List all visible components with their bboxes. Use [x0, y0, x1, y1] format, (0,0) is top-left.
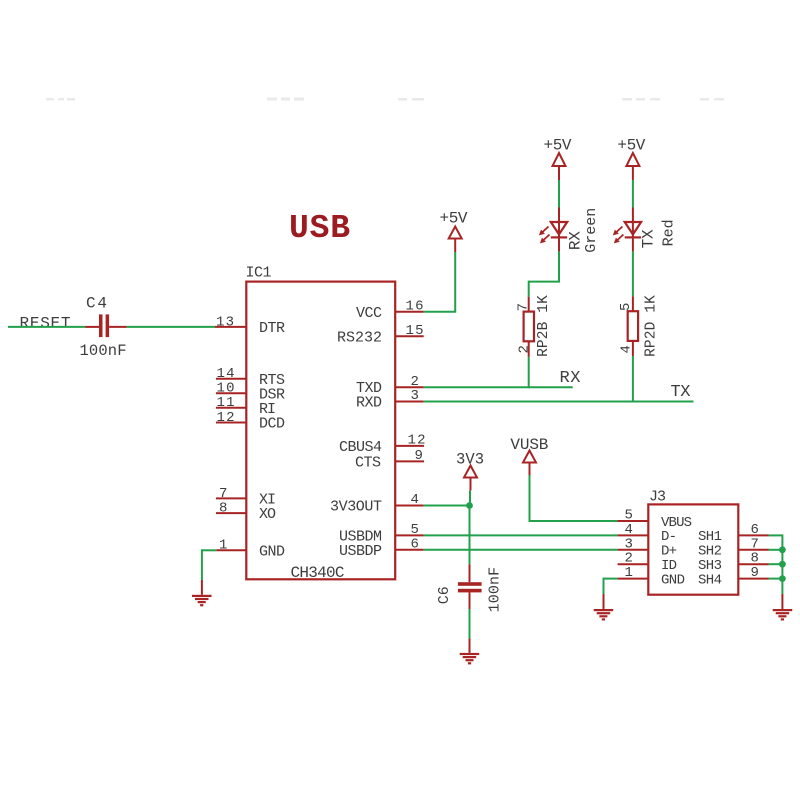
svg-text:11: 11 — [217, 395, 235, 411]
svg-text:Red: Red — [661, 219, 678, 246]
LED TX (red) — [625, 208, 641, 252]
wire RP2D to RXD net — [632, 356, 634, 403]
svg-text:DCD: DCD — [259, 416, 285, 433]
svg-text:VCC: VCC — [356, 305, 382, 322]
ground symbol (C6) — [460, 639, 480, 665]
svg-text:TX: TX — [671, 383, 691, 402]
IC1 pin 14 stub — [216, 378, 246, 380]
svg-text:3V3OUT: 3V3OUT — [330, 499, 382, 516]
wire pin 4 to junction — [424, 505, 470, 507]
power symbol +5V (TX LED) — [617, 137, 645, 181]
IC1 pin 7 stub — [216, 497, 246, 499]
svg-text:RX: RX — [560, 369, 581, 388]
wire USBDP net (pin 6 to J3 pin 3) — [424, 549, 618, 551]
capacitor C6 — [458, 564, 482, 609]
wire C6 to ground — [469, 609, 471, 639]
IC1 pin 5 stub — [395, 534, 424, 536]
IC1 pin 6 stub — [395, 549, 424, 551]
svg-text:100nF: 100nF — [80, 342, 127, 360]
wire +5V to LED RX — [558, 180, 560, 208]
wire +5V to pin 16 horizontal — [424, 311, 457, 313]
wire RXD net (TX) — [424, 401, 694, 403]
LED RX (green) — [551, 208, 567, 252]
svg-text:7: 7 — [516, 303, 532, 311]
IC1 pin 12 stub — [216, 422, 246, 424]
svg-text:C4: C4 — [86, 295, 107, 313]
svg-text:13: 13 — [216, 315, 234, 331]
IC1 pin 8 stub — [216, 512, 246, 514]
wire +5V to LED TX — [632, 180, 634, 208]
J3 pin 3 stub — [618, 549, 649, 551]
J3 pin 9 stub — [738, 578, 768, 580]
IC1 box — [246, 282, 395, 580]
wire VUSB to J3 pin 5 — [529, 520, 618, 522]
svg-text:RESET: RESET — [20, 315, 71, 333]
svg-text:RS232: RS232 — [337, 329, 382, 346]
J3 pin 6 stub — [738, 534, 768, 536]
IC1 pin 13 stub — [215, 326, 246, 328]
svg-text:RP2D 1K: RP2D 1K — [643, 295, 659, 357]
wire RESET net left segment — [8, 326, 85, 328]
svg-text:GND: GND — [661, 572, 685, 588]
svg-text:CTS: CTS — [355, 454, 381, 471]
svg-text:9: 9 — [751, 565, 759, 581]
svg-text:+5V: +5V — [440, 209, 468, 227]
svg-text:SH4: SH4 — [698, 572, 722, 588]
junction node 3V3 — [466, 502, 473, 509]
junction node SH3 — [779, 561, 786, 568]
svg-text:16: 16 — [406, 299, 424, 315]
IC1 pin 3 stub — [395, 401, 424, 403]
IC1 pin 11 stub — [216, 407, 246, 409]
svg-text:4: 4 — [618, 345, 634, 353]
connector J3 box — [648, 504, 738, 594]
svg-text:J3: J3 — [649, 489, 666, 506]
power symbol +5V (VCC net) — [440, 209, 468, 252]
J3 pin 8 stub — [738, 563, 768, 565]
wire IC1 GND to ground — [202, 549, 216, 580]
svg-text:7: 7 — [219, 486, 227, 502]
LED TX emission arrows — [613, 227, 624, 244]
svg-text:1: 1 — [219, 538, 227, 554]
svg-text:3: 3 — [411, 388, 419, 404]
J3 pin 1 stub — [618, 578, 649, 580]
wire J3 GND pin to ground — [604, 578, 618, 594]
svg-text:GND: GND — [259, 543, 285, 560]
ground symbol (J3 GND) — [594, 594, 614, 621]
svg-text:1: 1 — [625, 565, 633, 581]
ground symbol (J3 shield) — [773, 594, 793, 621]
svg-text:IC1: IC1 — [246, 265, 272, 282]
wire VUSB vertical — [529, 475, 531, 521]
svg-text:15: 15 — [406, 323, 424, 339]
resistor RP2B — [524, 297, 534, 357]
svg-text:CBUS4: CBUS4 — [339, 439, 382, 456]
IC1 pin 12 right stub (CBUS4) — [395, 445, 424, 447]
svg-text:2: 2 — [516, 345, 532, 353]
svg-text:TX: TX — [640, 229, 658, 248]
svg-text:Green: Green — [583, 208, 600, 253]
wire +5V to pin 16 vertical — [454, 252, 456, 312]
junction node SH2 — [779, 546, 786, 553]
svg-text:RXD: RXD — [356, 395, 382, 412]
J3 pin 5 stub — [618, 520, 649, 522]
svg-text:8: 8 — [219, 501, 227, 517]
IC1 pin 10 stub — [216, 392, 246, 394]
junction node SH4 — [779, 575, 786, 582]
IC1 pin 15 stub — [395, 335, 424, 337]
svg-text:12: 12 — [217, 410, 235, 426]
wire J3 shield bus segments — [769, 534, 783, 594]
J3 pin 7 stub — [738, 549, 768, 551]
resistor RP2D — [628, 296, 638, 356]
LED RX emission arrows — [539, 227, 550, 244]
svg-text:100nF: 100nF — [486, 567, 503, 613]
power symbol +5V (RX LED) — [544, 137, 572, 181]
svg-text:6: 6 — [411, 537, 419, 553]
capacitor C4 — [85, 314, 127, 337]
svg-text:RX: RX — [567, 231, 585, 250]
svg-text:USBDP: USBDP — [339, 543, 382, 560]
wire 3V3 to junction — [469, 490, 471, 505]
wire TXD net (RX) — [424, 386, 573, 388]
svg-text:USB: USB — [289, 210, 350, 247]
faint crop artifact marks — [46, 98, 724, 101]
wire LED RX to resistor — [529, 251, 560, 296]
svg-text:DTR: DTR — [259, 320, 285, 337]
ground symbol (IC1 GND) — [192, 580, 212, 606]
IC1 pin 4 stub — [395, 505, 424, 507]
svg-text:12: 12 — [408, 433, 426, 449]
svg-text:CH340C: CH340C — [291, 564, 345, 582]
wire junction down to C6 — [469, 506, 471, 565]
power symbol VUSB — [510, 436, 548, 475]
IC1 pin 2 stub — [395, 386, 424, 388]
svg-text:9: 9 — [415, 448, 423, 464]
wire RESET net right segment (C4 to pin 13) — [127, 326, 215, 328]
power symbol 3V3 — [456, 451, 484, 491]
IC1 pin 9 stub — [395, 460, 424, 462]
svg-text:C6: C6 — [436, 586, 453, 604]
svg-text:+5V: +5V — [617, 137, 645, 155]
wire RP2B to TXD net — [528, 357, 530, 388]
svg-text:XO: XO — [259, 506, 276, 523]
J3 pin 2 stub — [618, 563, 649, 565]
J3 pin 4 stub — [618, 534, 649, 536]
IC1 pin 1 stub — [216, 549, 246, 551]
svg-text:5: 5 — [618, 303, 634, 311]
IC1 pin 16 stub — [395, 311, 424, 313]
svg-text:RP2B 1K: RP2B 1K — [536, 295, 552, 357]
wire USBDM net (pin 5 to J3 pin 4) — [424, 534, 618, 536]
svg-text:+5V: +5V — [544, 137, 572, 155]
wire LED TX to resistor — [632, 251, 634, 296]
svg-text:4: 4 — [411, 492, 419, 508]
